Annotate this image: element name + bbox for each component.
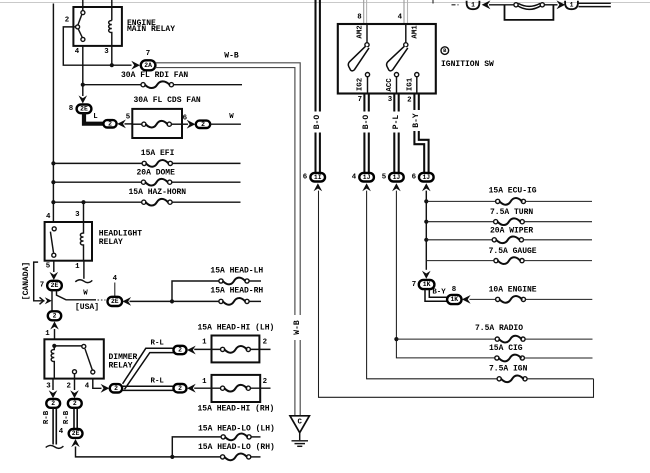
- svg-text:IG2: IG2: [357, 78, 365, 91]
- connector 1K pin 8: [447, 295, 461, 304]
- wire 1J(6) feed down to 1K: [425, 191, 427, 270]
- arrow up below 2E: [71, 439, 80, 447]
- svg-text:2: 2: [51, 400, 55, 407]
- fuse 15A HEAD-RH: [172, 286, 263, 304]
- arrow into connector 2A: [131, 61, 140, 70]
- svg-text:6: 6: [303, 173, 308, 181]
- wire gray stub pin4 to ignition sw: [404, 0, 408, 24]
- svg-text:5: 5: [46, 263, 51, 271]
- connector 1 (right, open top): [565, 1, 578, 9]
- svg-text:2: 2: [108, 121, 112, 128]
- fuse 7.5A RADIO: [396, 324, 592, 343]
- fuse 15A HEAD-LO (RH): [198, 443, 275, 460]
- ground symbol: [292, 433, 309, 447]
- wire pin1 with break tilde: [75, 261, 92, 283]
- fuse box 30A FL CDS FAN: [132, 96, 201, 138]
- arrow up into 1J: [362, 183, 371, 191]
- svg-text:4: 4: [85, 383, 90, 391]
- svg-text:1: 1: [471, 2, 475, 9]
- fuse 15A EFI: [53, 149, 240, 167]
- wire 1I return loop from 7.5A IGN: [319, 191, 594, 398]
- svg-text:2E: 2E: [80, 106, 88, 113]
- svg-text:8: 8: [452, 286, 457, 294]
- svg-text:30A FL RDI FAN: 30A FL RDI FAN: [121, 71, 188, 80]
- svg-text:W: W: [229, 113, 234, 121]
- node: dimmer coil junction: [52, 344, 56, 348]
- svg-text:20A WIPER: 20A WIPER: [490, 226, 533, 235]
- connector 1 (left, open top): [467, 1, 480, 9]
- connector 2 (CDS right): [196, 121, 210, 128]
- node: coil junction on 2A row: [110, 63, 114, 67]
- wire relay pin2 to output row: [63, 27, 131, 65]
- svg-text:4: 4: [46, 213, 51, 221]
- connector 1J pin 6: [412, 173, 434, 182]
- svg-text:2: 2: [65, 17, 69, 25]
- svg-text:1K: 1K: [450, 296, 458, 303]
- wire USA branch: [57, 291, 106, 301]
- fuse 7.5A GAUGE: [426, 247, 592, 264]
- wire 2E4 to head fuse rows: [130, 281, 220, 301]
- svg-text:B-O: B-O: [313, 115, 322, 130]
- arrow down into 2E pin8: [79, 95, 88, 103]
- svg-text:7.5A TURN: 7.5A TURN: [490, 208, 533, 217]
- svg-text:7.5A IGN: 7.5A IGN: [489, 365, 528, 374]
- svg-text:3: 3: [46, 382, 51, 390]
- connector 2E pin 7: [40, 281, 62, 290]
- svg-text:10A ENGINE: 10A ENGINE: [489, 286, 537, 295]
- svg-text:20A DOME: 20A DOME: [137, 169, 176, 178]
- wire 2E7 down to connector 2: [51, 290, 53, 311]
- svg-text:1I: 1I: [314, 174, 322, 181]
- wire W stub: [210, 123, 241, 125]
- relay DIMMER RELAY: [44, 339, 137, 378]
- arrow up below connector 2: [50, 321, 59, 329]
- svg-text:W-B: W-B: [224, 51, 239, 60]
- left supply bus: [52, 4, 54, 223]
- ground C triangle: [290, 416, 309, 433]
- fuse 7.5A TURN: [426, 208, 592, 225]
- label circled B: [441, 47, 449, 55]
- svg-text:DIMMER: DIMMER: [109, 353, 138, 362]
- svg-text:R-B: R-B: [43, 410, 51, 424]
- svg-text:[USA]: [USA]: [75, 303, 99, 312]
- wire R-B double (pin2): [74, 408, 77, 429]
- arrow up into 1J: [422, 183, 431, 191]
- svg-text:15A HEAD-LH: 15A HEAD-LH: [210, 267, 263, 276]
- node: ECU-IG tap: [424, 199, 428, 203]
- relay ENGINE MAIN RELAY: [65, 0, 175, 56]
- svg-text:7: 7: [146, 50, 150, 58]
- wire fusible link to right connector: [544, 4, 557, 6]
- svg-text:7.5A GAUGE: 7.5A GAUGE: [489, 247, 537, 256]
- wire relay pin4 down: [82, 46, 84, 96]
- wire B-Y (IG1) double with jog: [414, 94, 428, 174]
- arrow left into 2E pin4: [122, 297, 131, 306]
- arrow down into 2: [49, 390, 58, 398]
- svg-text:L: L: [93, 113, 98, 121]
- wire B-O (IG2) double: [364, 94, 368, 174]
- wire R-L lower double: [122, 386, 173, 390]
- switch IGNITION SW: [338, 24, 436, 94]
- svg-text:7: 7: [40, 282, 44, 290]
- wire pin2 down: [74, 379, 76, 390]
- svg-text:1J: 1J: [422, 174, 430, 181]
- svg-text:AM2: AM2: [357, 25, 365, 38]
- svg-text:AM1: AM1: [411, 25, 419, 39]
- svg-text:2: 2: [66, 382, 70, 390]
- node: HAZ tap junction: [51, 200, 55, 204]
- svg-text:4: 4: [59, 428, 64, 436]
- connector 2 (dimmer pin2): [68, 399, 82, 408]
- svg-text:RELAY: RELAY: [99, 238, 123, 247]
- label W-B vertical on ground wire: [293, 315, 303, 340]
- fuse 15A CIG: [489, 344, 593, 362]
- wire R-B double (pin3) with tilde: [46, 408, 64, 449]
- wire arrow tail to CDS box: [125, 123, 133, 125]
- fuse 30A FL RDI FAN: [83, 71, 242, 88]
- wire B-O (left) double from top edge: [316, 0, 320, 173]
- svg-text:ACC: ACC: [386, 78, 394, 92]
- svg-text:4: 4: [398, 14, 403, 22]
- svg-text:15A ECU-IG: 15A ECU-IG: [489, 186, 537, 195]
- connector 2E pin 4 (USA feed): [108, 275, 123, 306]
- svg-text:7: 7: [358, 96, 362, 104]
- svg-text:B-Y: B-Y: [432, 289, 446, 297]
- svg-text:3: 3: [388, 96, 393, 104]
- scan border line top: [0, 2, 650, 3]
- relay HEADLIGHT RELAY: [45, 211, 143, 261]
- fusible link AM1 (fuse in box): [505, 3, 554, 20]
- svg-text:IG1: IG1: [407, 77, 415, 91]
- svg-text:2E: 2E: [72, 430, 80, 437]
- arrow left into 1K: [462, 295, 471, 304]
- svg-text:B-O: B-O: [362, 115, 371, 130]
- wire thick L from 2E to connector 2: [84, 113, 104, 124]
- connector 2E pin 8: [69, 105, 92, 114]
- svg-text:15A EFI: 15A EFI: [141, 149, 175, 158]
- svg-text:6: 6: [412, 173, 417, 181]
- connector 1J pin 4: [352, 173, 374, 182]
- arrow down into 1K: [422, 271, 431, 279]
- wire P-L (ACC) double: [394, 94, 398, 174]
- arrow right into 2: [101, 384, 110, 393]
- wire pin5 down: [53, 261, 55, 272]
- wire 1J(4) feed to 7.5A IGN: [367, 191, 498, 379]
- wire gray stub pin8 to ignition sw: [364, 0, 367, 24]
- svg-text:1: 1: [45, 330, 50, 338]
- svg-text:6: 6: [183, 114, 188, 122]
- svg-text:30A FL CDS FAN: 30A FL CDS FAN: [134, 96, 201, 105]
- svg-text:15A HEAD-HI (RH): 15A HEAD-HI (RH): [198, 405, 275, 414]
- wire HAZ row to headlight relay pin3: [83, 202, 85, 222]
- svg-text:1K: 1K: [423, 281, 431, 288]
- svg-text:7.5A RADIO: 7.5A RADIO: [475, 324, 523, 333]
- fuse 20A DOME: [53, 169, 240, 186]
- svg-text:8: 8: [357, 14, 362, 22]
- node: junction pin4 / RDI FAN row: [81, 83, 85, 87]
- wire to fusible link: [489, 4, 514, 6]
- svg-text:C: C: [297, 419, 302, 427]
- svg-text:15A HEAD-LO (LH): 15A HEAD-LO (LH): [198, 424, 275, 433]
- wire CDS box to right connector: [182, 123, 188, 125]
- svg-text:W-B: W-B: [293, 320, 302, 335]
- svg-text:15A HEAD-RH: 15A HEAD-RH: [210, 286, 263, 295]
- wire 1J(5) feed to RADIO and CIG: [396, 191, 494, 358]
- arrow left into connector 1: [482, 0, 491, 9]
- node: headlight relay coil tap: [81, 200, 85, 204]
- svg-text:2: 2: [73, 400, 77, 407]
- svg-text:2: 2: [178, 385, 182, 392]
- connector 1K pin 7: [412, 280, 435, 289]
- svg-text:1: 1: [202, 338, 207, 346]
- fuse 7.5A IGN: [489, 365, 594, 382]
- svg-text:2: 2: [263, 378, 267, 386]
- svg-text:R-L: R-L: [151, 339, 165, 347]
- svg-text:4: 4: [75, 48, 80, 56]
- fuse 20A WIPER: [426, 226, 592, 243]
- wire head-lo feed: [76, 447, 221, 457]
- fuse box 15A HEAD-HI (RH): [194, 375, 274, 414]
- svg-text:B-Y: B-Y: [412, 113, 421, 128]
- svg-text:7: 7: [412, 281, 416, 289]
- label B-O: [313, 112, 323, 133]
- label B-Y: [412, 110, 422, 131]
- arrow left into 2: [187, 384, 196, 393]
- svg-text:8: 8: [69, 105, 74, 113]
- fuse box 15A HEAD-HI (LH): [194, 323, 274, 362]
- page edge tick: [432, 0, 434, 4]
- svg-text:R-L: R-L: [151, 377, 165, 385]
- svg-text:1: 1: [75, 263, 80, 271]
- arrow up into 1I: [314, 183, 323, 191]
- svg-text:IGNITION SW: IGNITION SW: [441, 60, 494, 69]
- node: WIPER tap: [424, 238, 428, 242]
- arrow down into 2: [70, 390, 79, 398]
- arrow right into connector 2: [187, 120, 196, 129]
- node: DOME tap junction: [51, 180, 55, 184]
- svg-text:5: 5: [382, 173, 387, 181]
- svg-text:2E: 2E: [111, 298, 119, 305]
- svg-text:15A CIG: 15A CIG: [489, 344, 523, 353]
- wire pin3 down: [52, 379, 54, 390]
- label B-O: [362, 112, 372, 133]
- arrow left into 2: [187, 346, 196, 355]
- node: TURN tap: [424, 220, 428, 224]
- svg-text:2: 2: [53, 313, 57, 320]
- svg-text:2E: 2E: [51, 282, 59, 289]
- wire W-B double line from 2A to ground drop: [155, 63, 300, 416]
- svg-text:15A HEAD-LO (RH): 15A HEAD-LO (RH): [198, 443, 275, 452]
- connector 1I pin 6: [303, 173, 325, 182]
- svg-text:RELAY: RELAY: [109, 362, 133, 371]
- wire B-Y double L from 1K to 1K: [425, 289, 447, 301]
- arrow down into 2E pin7: [50, 272, 59, 280]
- svg-text:MAIN RELAY: MAIN RELAY: [127, 25, 175, 34]
- svg-text:1: 1: [202, 378, 207, 386]
- connector 2A pin 7: [141, 50, 156, 70]
- node: head-lo split: [170, 455, 174, 459]
- svg-text:2A: 2A: [144, 62, 152, 69]
- wire relay pin3 coil to output row: [111, 46, 113, 65]
- label P-L: [391, 112, 401, 133]
- connector 2 (CDS left): [103, 120, 116, 127]
- arrow up into 1J: [392, 183, 401, 191]
- fuse 15A HEAD-LH: [210, 267, 263, 285]
- svg-text:15A HEAD-HI (LH): 15A HEAD-HI (LH): [198, 323, 275, 332]
- svg-text:5: 5: [126, 113, 131, 121]
- svg-text:2: 2: [407, 97, 411, 105]
- fuse 15A HAZ-HORN: [53, 188, 240, 206]
- svg-text:3: 3: [104, 48, 109, 56]
- wire dashed stub left of connector 1: [452, 4, 459, 6]
- svg-text:W: W: [83, 290, 88, 298]
- wire double stub right: [579, 3, 611, 6]
- fuse 15A ECU-IG: [426, 186, 592, 204]
- svg-text:4: 4: [113, 275, 118, 283]
- wire R-L upper double diagonal: [123, 348, 174, 389]
- bracket CANADA with arrow: [34, 262, 52, 304]
- svg-text:3: 3: [75, 211, 80, 219]
- svg-text:2: 2: [114, 385, 118, 392]
- svg-text:[CANADA]: [CANADA]: [22, 262, 31, 300]
- svg-text:2: 2: [263, 338, 267, 346]
- svg-text:R-B: R-B: [63, 410, 71, 424]
- svg-text:4: 4: [352, 173, 357, 181]
- arrow right into connector 1: [557, 0, 566, 9]
- wire down to dimmer relay: [54, 329, 56, 339]
- fuse 15A HEAD-LO (LH): [198, 424, 275, 440]
- connector 2E pin 4 (head-lo): [59, 428, 83, 438]
- svg-text:1J: 1J: [363, 174, 371, 181]
- connector 2 (dimmer pin3): [46, 399, 60, 408]
- connector 1J pin 5: [382, 173, 404, 182]
- connector 2 (dimmer out): [110, 384, 122, 392]
- svg-text:2: 2: [201, 121, 205, 128]
- wire branch up to LH row: [172, 437, 221, 457]
- node: RADIO tap: [394, 337, 398, 341]
- connector 2 (dimmer top): [48, 311, 61, 320]
- connector 2 (HI LH): [174, 346, 187, 354]
- wire pin4 to connector: [93, 379, 102, 389]
- svg-text:15A HAZ-HORN: 15A HAZ-HORN: [129, 188, 187, 197]
- node: head fuse split: [170, 299, 174, 303]
- node: EFI tap junction: [51, 161, 55, 165]
- connector 2 (HI RH): [174, 384, 187, 392]
- svg-text:1J: 1J: [393, 174, 401, 181]
- fuse 10A ENGINE: [470, 286, 593, 303]
- svg-text:P-L: P-L: [392, 115, 401, 130]
- svg-text:2: 2: [178, 347, 182, 354]
- svg-text:1: 1: [570, 2, 574, 9]
- arrow left into connector 2: [117, 120, 126, 129]
